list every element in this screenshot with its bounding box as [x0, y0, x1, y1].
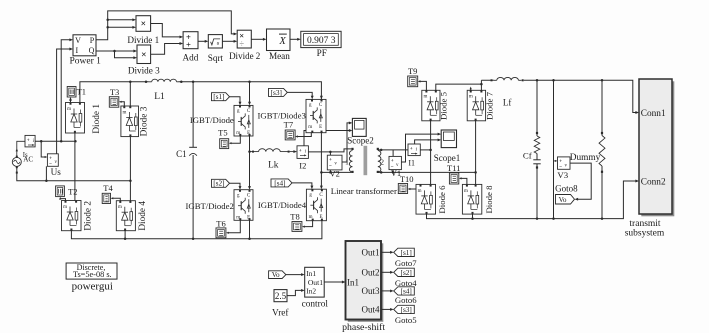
voltage measurement V3 [554, 160, 556, 162]
svg-text:T2: T2 [68, 186, 77, 196]
node secondary top [380, 149, 383, 152]
display T9 [408, 76, 418, 87]
svg-text:Q: Q [89, 46, 95, 55]
svg-text:×: × [141, 50, 146, 60]
transistor T7 IGBT/Diode3 [306, 99, 326, 132]
wire secondary top to I1 [378, 149, 408, 151]
block Sqrt [208, 35, 222, 48]
svg-text:m: m [67, 107, 71, 112]
svg-text:Diode 6: Diode 6 [437, 185, 447, 214]
transistor T8 IGBT/Diode4 [306, 189, 326, 221]
wire Lf to Conn1 [524, 80, 636, 112]
node Diode4 bus junction [124, 238, 127, 241]
svg-text:IGBT/Diode4: IGBT/Diode4 [258, 200, 307, 210]
node Is-Us junction [40, 140, 43, 143]
svg-text:T5: T5 [218, 127, 227, 137]
source AC [12, 157, 21, 166]
voltage measurement V2 [327, 155, 342, 170]
svg-text:m: m [118, 205, 122, 210]
svg-text:Diode 7: Diode 7 [484, 91, 494, 120]
node C1 bus junction [192, 238, 195, 241]
svg-text:Is: Is [23, 152, 28, 159]
block Power 1 [73, 35, 96, 56]
svg-text:Diode 4: Diode 4 [138, 201, 148, 231]
wire Diode7 top to Lf rail [481, 80, 494, 90]
svg-text:m: m [464, 189, 468, 194]
svg-text:0.907 3: 0.907 3 [307, 36, 336, 46]
wire I1 out to node A [420, 149, 430, 151]
svg-text:Goto5: Goto5 [395, 315, 417, 325]
node primary bottom tap [320, 171, 323, 174]
wire P output to Divide1 and Divide2 [96, 11, 234, 40]
from tag s1 [212, 93, 230, 101]
svg-text:+: + [299, 148, 302, 154]
wire V1 minus stub [392, 170, 394, 173]
svg-text:m: m [418, 189, 422, 194]
node V2 plus tap [329, 151, 332, 154]
svg-text:Diode 8: Diode 8 [484, 185, 494, 214]
wire Out3 to goto s4 [381, 290, 391, 292]
svg-text:I2: I2 [299, 161, 306, 171]
node leg2 AC tap [129, 180, 132, 183]
wire T6 m to display [229, 220, 241, 233]
wire I2 to transformer primary top [308, 149, 351, 152]
svg-text:2.5: 2.5 [275, 291, 287, 301]
svg-text:T4: T4 [103, 183, 113, 193]
wire P to Divide1 input 1 [108, 19, 134, 21]
wire Out4 to goto s3 [381, 308, 391, 310]
svg-text:Out4: Out4 [362, 304, 381, 314]
diode Diode 1 [66, 103, 85, 134]
wire V1 signal to Scope1 [401, 134, 438, 162]
block Divide 1 [136, 16, 151, 32]
svg-text:Conn2: Conn2 [641, 177, 666, 187]
wire to Us plus [41, 141, 45, 157]
svg-text:I: I [75, 46, 78, 55]
svg-text:[s3]: [s3] [401, 305, 412, 314]
node P branch upper [106, 19, 109, 22]
wire Sqrt output to Divide2 [222, 40, 234, 42]
block Divide 3 [137, 45, 151, 64]
scope Scope2 [352, 118, 366, 136]
svg-text:control: control [302, 300, 329, 310]
node Lk tap [248, 150, 251, 153]
wire right leg T7-T8 rail [320, 133, 322, 187]
goto tag s2 [394, 268, 415, 276]
wire Q output to Divide3 inputs [96, 50, 134, 52]
wire node B rail [475, 121, 477, 185]
wire Diode2 m to T2 [60, 199, 65, 201]
svg-text:In1: In1 [306, 269, 316, 278]
wire Is output to bridge leg1 [35, 140, 75, 142]
current measurement I2 [297, 146, 308, 159]
display T5 scope [220, 139, 229, 149]
svg-text:[s1]: [s1] [401, 248, 412, 257]
inductor L1 [152, 79, 177, 82]
block Add [183, 32, 198, 49]
svg-text:Out2: Out2 [362, 267, 380, 277]
svg-text:Us: Us [51, 167, 62, 177]
display T6 scope [216, 228, 226, 238]
svg-text:E: E [319, 125, 322, 130]
wire Vo to control In1 [286, 274, 302, 276]
node Cf rail [536, 79, 539, 82]
svg-text:Goto7: Goto7 [395, 258, 417, 268]
svg-text:Diode 5: Diode 5 [438, 91, 448, 120]
subsystem phase-shift [348, 243, 384, 321]
wire Out1 to goto s1 [381, 251, 391, 253]
diode Diode 6 [416, 184, 436, 214]
goto tag s1 [394, 248, 415, 256]
svg-text:V2: V2 [330, 169, 340, 179]
wire control Out1 to phase-shift In1 [324, 281, 343, 283]
node V3 rail [552, 79, 555, 82]
wire Diode4 m to T4 [113, 198, 120, 200]
wire node A rail [430, 121, 432, 185]
wire V3 signal to Goto Vo [570, 163, 591, 199]
wire negative DC bus [71, 221, 322, 239]
goto tag s4 [394, 287, 415, 295]
svg-text:IGBT/Diode: IGBT/Diode [190, 115, 234, 125]
svg-text:Lk: Lk [268, 161, 279, 171]
display T1 [67, 87, 76, 98]
wire left leg T5-T6 rail [249, 136, 251, 187]
wire Vref to control In2 [287, 290, 302, 295]
svg-text:T9: T9 [408, 66, 417, 76]
voltage measurement Us [47, 154, 58, 167]
svg-text:In1: In1 [347, 277, 359, 287]
wire primary bottom to right leg [321, 171, 351, 173]
wire s2 to T6 gate [230, 183, 241, 187]
node secondary bottom [380, 171, 383, 174]
wire AC bottom return bus [17, 167, 131, 181]
node rail Diode3 [129, 81, 132, 84]
svg-text:Goto6: Goto6 [395, 295, 417, 305]
current measurement I1 [408, 144, 420, 156]
svg-text:[s4]: [s4] [274, 178, 285, 187]
wire output bottom bus to Conn2 [427, 181, 637, 219]
svg-text:÷: ÷ [239, 39, 244, 49]
svg-text:u: u [217, 40, 220, 46]
display T7 scope [285, 130, 295, 140]
svg-text:[s3]: [s3] [271, 88, 282, 97]
svg-text:T1: T1 [77, 87, 86, 97]
wire V1 plus stub [392, 150, 394, 157]
wire rail to T5 collector [249, 82, 251, 103]
wire Out2 to goto s2 [381, 271, 391, 273]
transformer Linear transformer1 [351, 148, 353, 150]
wire Us to Power1 I input [57, 49, 70, 154]
svg-text:+: + [410, 146, 413, 152]
svg-text:m: m [123, 110, 127, 115]
display T10 [398, 184, 407, 194]
wire AC top to Is [17, 141, 25, 156]
svg-text:T3: T3 [110, 87, 119, 97]
wire Is to Power1 V input [61, 40, 70, 142]
svg-text:I1: I1 [408, 158, 415, 167]
wire T5 m to display [231, 136, 240, 143]
transistor T6 IGBT/Diode2 [234, 190, 253, 221]
svg-text:T10: T10 [400, 174, 414, 184]
svg-text:m: m [469, 95, 473, 100]
subsystem transmit [641, 81, 674, 216]
diode Diode 5 [422, 90, 440, 121]
svg-text:[s2]: [s2] [401, 268, 412, 277]
svg-text:L1: L1 [154, 92, 165, 102]
node P branch lower [106, 26, 109, 29]
node V3 bus junction [552, 217, 555, 220]
wire bridge leg2 rail [129, 137, 131, 201]
wire Diode5 m to T9 [420, 81, 426, 90]
scope Scope1 [441, 130, 456, 148]
diode Diode 2 [62, 201, 82, 231]
node Cf bus junction [536, 217, 539, 220]
wire bridge leg1 rail [74, 133, 76, 201]
wire Divide3 output to Add [151, 44, 181, 55]
svg-text:V: V [75, 36, 81, 45]
display PF 0.9073 [301, 31, 341, 47]
svg-text:+: + [27, 138, 30, 144]
svg-text:Mean: Mean [269, 51, 290, 61]
svg-text:m: m [423, 95, 427, 100]
wire s3 to T7 gate [287, 92, 312, 97]
wire Diode4 bottom to negative bus [124, 231, 126, 239]
wire T6 emitter to bus [249, 220, 251, 239]
wire Diode7 m stub [470, 89, 472, 91]
from tag s2 [212, 179, 230, 187]
node leg1 AC tap [74, 140, 77, 143]
svg-text:Vo: Vo [272, 271, 280, 279]
node V-signal tap [60, 140, 63, 143]
wire T7 m to display [298, 133, 312, 137]
svg-text:Scope2: Scope2 [347, 136, 374, 146]
svg-text:Diode 3: Diode 3 [139, 106, 149, 136]
svg-text:Conn1: Conn1 [641, 109, 666, 119]
wire V2 plus stub [329, 152, 331, 155]
wire s1 to T5 gate [230, 97, 241, 103]
transistor T5 IGBT/Diode [234, 105, 253, 136]
svg-text:Divide 1: Divide 1 [127, 35, 159, 45]
wire Divide1 output to Add [151, 24, 181, 37]
svg-text:Lf: Lf [503, 97, 512, 107]
svg-text:phase-shift: phase-shift [342, 322, 385, 333]
resistor Dummy [601, 80, 603, 135]
from tag s3 [269, 88, 288, 96]
svg-text:Goto8: Goto8 [555, 184, 578, 194]
display T2 [56, 186, 65, 197]
capacitor Cf branch [536, 80, 538, 136]
node B secondary junction [474, 171, 477, 174]
wire Diode3 m to T3 [121, 102, 124, 106]
svg-text:IGBT/Diode2: IGBT/Diode2 [186, 201, 234, 211]
block powergui [66, 263, 117, 279]
from tag Vo [269, 271, 286, 279]
svg-text:Ts=5e-08 s.: Ts=5e-08 s. [73, 270, 112, 279]
svg-text:×: × [141, 20, 146, 30]
voltage measurement V1 [389, 156, 401, 169]
block Mean [267, 29, 291, 51]
svg-text:[s1]: [s1] [213, 92, 224, 101]
svg-text:subsystem: subsystem [625, 228, 665, 238]
svg-text:T11: T11 [447, 163, 460, 173]
svg-text:Add: Add [182, 52, 198, 62]
inductor Lk [250, 151, 259, 153]
svg-text:Linear transformer1: Linear transformer1 [331, 186, 402, 196]
svg-text:1: 1 [345, 157, 349, 166]
svg-text:V3: V3 [557, 170, 568, 180]
svg-text:In2: In2 [306, 287, 316, 296]
svg-text:PF: PF [317, 48, 327, 58]
wire Diode5 top link [436, 84, 482, 90]
svg-text:IGBT/Diode3: IGBT/Diode3 [258, 110, 306, 120]
display T11 [449, 173, 458, 184]
diode Diode 7 [467, 90, 485, 121]
wire I1 signal to Scope1 [415, 140, 439, 144]
svg-text:+: + [186, 40, 191, 50]
block control [305, 267, 325, 297]
wire V2 signal to Scope2 [342, 123, 350, 162]
svg-text:m: m [308, 125, 312, 130]
svg-text:T8: T8 [290, 211, 299, 221]
goto tag Vo [556, 195, 575, 205]
node rail C1 [192, 81, 195, 84]
from tag s4 [271, 179, 292, 187]
svg-text:Vref: Vref [272, 307, 289, 318]
goto tag s3 [394, 305, 415, 313]
wire Diode8 m to T11 [461, 178, 467, 184]
wire I2 signal to Scope2 [304, 131, 350, 146]
wire P to Divide1 input 2 [108, 26, 134, 28]
svg-text:2: 2 [380, 157, 384, 166]
wire Divide2 output to Mean [251, 38, 263, 40]
svg-text:C1: C1 [176, 149, 187, 159]
wire Add output to Sqrt [198, 40, 206, 42]
diode Diode 4 [116, 201, 135, 231]
svg-text:P: P [90, 36, 95, 45]
svg-text:Divide 2: Divide 2 [229, 51, 260, 61]
diode Diode 3 [121, 106, 139, 137]
wire Us minus to AC return [45, 166, 47, 181]
svg-text:Power 1: Power 1 [69, 57, 101, 67]
wire Diode1 m to T1 [70, 100, 72, 103]
wire s4 to T8 gate [292, 183, 312, 187]
node rail T5 leg [248, 81, 251, 84]
svg-text:Divide 3: Divide 3 [128, 65, 160, 75]
svg-text:Cf: Cf [523, 151, 532, 161]
current measurement Is [25, 135, 35, 147]
display T3 [109, 97, 119, 108]
node rail L1 left [145, 81, 148, 84]
diode Diode 8 [462, 184, 481, 214]
wire secondary bottom to node B [378, 171, 476, 173]
svg-text:T6: T6 [216, 219, 225, 229]
node Us minus junction [45, 180, 48, 183]
svg-text:T7: T7 [284, 120, 293, 130]
inductor Lf [491, 79, 493, 81]
svg-text:Sqrt: Sqrt [208, 53, 224, 63]
wire Diode3 top to DC rail [129, 82, 131, 106]
wire Mean output to PF display [290, 38, 298, 40]
capacitor C1 [192, 82, 194, 148]
svg-text:Diode 2: Diode 2 [84, 201, 94, 231]
svg-text:Dummy: Dummy [570, 153, 601, 163]
svg-text:Out3: Out3 [362, 286, 381, 296]
wire V2 minus stub [329, 170, 331, 173]
svg-text:m: m [63, 205, 67, 210]
svg-text:powergui: powergui [72, 280, 113, 292]
svg-text:Diode 1: Diode 1 [92, 104, 102, 134]
wire Diode8 bottom stub [472, 214, 474, 219]
wire Diode6 m to T10 [410, 184, 420, 189]
svg-text:[s2]: [s2] [213, 179, 224, 188]
block Divide 2 [237, 30, 251, 48]
display T4 [102, 193, 110, 203]
node T6 bus junction [248, 238, 251, 241]
svg-text:Scope1: Scope1 [434, 153, 461, 163]
display T8 scope [292, 222, 302, 232]
svg-text:Vo: Vo [559, 196, 567, 204]
constant Vref 2.5 [274, 290, 287, 302]
svg-text:Out1: Out1 [362, 247, 380, 257]
wire T8 m to display [305, 221, 313, 227]
wire V3 sense line [553, 80, 555, 218]
node Dummy rail [601, 79, 604, 82]
svg-text:X: X [278, 36, 286, 47]
node Dummy bus junction [601, 217, 604, 220]
node Q branch [113, 50, 116, 53]
wire DC positive rail [80, 82, 322, 103]
